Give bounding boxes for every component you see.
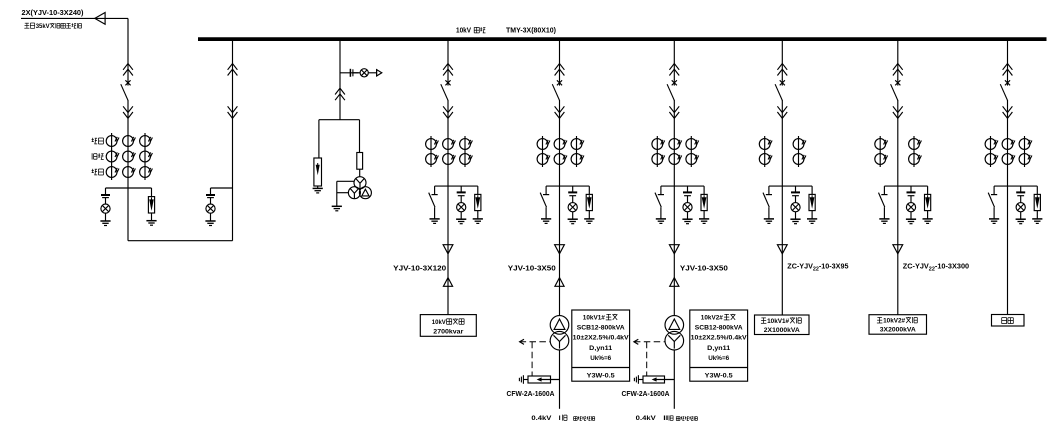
- wire through CTs at x=657: [656, 136, 658, 167]
- svg-text:TMY-3X(80X10): TMY-3X(80X10): [506, 26, 557, 35]
- earthing switch ES of outgoing 2: [879, 186, 888, 219]
- voltage indicator of cap feeder coupling capacitor: [457, 192, 466, 195]
- svg-text:I: I: [559, 415, 561, 422]
- svg-text:0.4kV: 0.4kV: [636, 415, 657, 422]
- load box 10kV capacitor bank: [420, 315, 476, 337]
- ground of ES of T2 feeder: [656, 219, 666, 224]
- svg-text:10kV1#: 10kV1#: [767, 318, 789, 325]
- svg-text:10kV2#: 10kV2#: [701, 315, 723, 322]
- wire of spare to lamp: [1020, 196, 1022, 203]
- wire branch tee of incoming: [106, 187, 152, 189]
- svg-text:10±2X2.5%/0.4kV: 10±2X2.5%/0.4kV: [691, 335, 747, 342]
- wire capacitor feeder column lower: [447, 100, 449, 245]
- CT T1 feeder row1 col1: [537, 139, 550, 150]
- CT outgoing 1 row1 col2: [793, 139, 806, 150]
- voltage display coupling capacitor: [350, 69, 353, 77]
- surge arrester FB of PT panel: [314, 158, 322, 186]
- svg-text:Uk%=6: Uk%=6: [590, 355, 611, 362]
- CT incoming row2 col1: [106, 151, 119, 162]
- voltage indicator of outgoing 2 coupling capacitor: [907, 192, 916, 195]
- earthing switch ES of T1 feeder: [540, 186, 549, 219]
- indicator lamp of riser: [206, 204, 215, 213]
- disconnector upper contacts of T1 feeder QF: [555, 64, 565, 76]
- voltage transformer TV three-winding: [348, 177, 371, 199]
- CT T1 feeder row1 col2: [554, 139, 567, 150]
- wire through CTs at x=990: [990, 136, 992, 167]
- wire arrester drop of incoming: [151, 188, 153, 197]
- wire of outgoing 1 lamp to ground: [795, 212, 797, 219]
- transformer T2 SCB12-800kVA: [665, 316, 684, 350]
- ground of PT neutral: [332, 206, 342, 211]
- indicator lamp of T1 feeder: [568, 203, 577, 212]
- cable termination upper of T1 feeder: [555, 245, 565, 254]
- earthing switch ES of spare: [988, 186, 997, 219]
- wire cable of T2 feeder: [673, 245, 675, 287]
- ground of of incoming: [100, 221, 110, 226]
- circuit breaker of T2 feeder QF: [667, 80, 677, 101]
- disconnector upper contacts of riser disconnector QS2: [228, 64, 238, 76]
- CT spare row1 col2: [1002, 139, 1015, 150]
- disconnector lower contacts of T1 feeder QF: [555, 106, 565, 118]
- svg-text:10±2X2.5%/0.4kV: 10±2X2.5%/0.4kV: [573, 335, 629, 342]
- busway unit CFW-2A-1600A of T1: [528, 376, 560, 383]
- surge arrester F of incoming: [148, 197, 154, 213]
- wire PT arrester to ground: [317, 186, 319, 188]
- wire through CTs at x=465: [464, 136, 466, 167]
- surge arrester F of outgoing 2: [925, 194, 931, 210]
- wire through CTs at x=914: [913, 136, 915, 167]
- CT T1 feeder row2 col2: [554, 154, 567, 165]
- CT T2 feeder row1 col1: [652, 139, 665, 150]
- destination box of outgoing 1: [755, 315, 810, 335]
- CT incoming row1 col3: [140, 136, 153, 147]
- CT T1 feeder row2 col1: [537, 154, 550, 165]
- CT outgoing 1 row2 col2: [793, 154, 806, 165]
- CT T2 feeder row2 col2: [669, 154, 682, 165]
- disconnector upper contacts of spare feeder QF: [1003, 64, 1013, 76]
- wire through CTs at x=112: [111, 133, 113, 180]
- ground of F of T2 feeder: [699, 219, 709, 224]
- wire outgoing 2 column lower: [897, 100, 899, 245]
- wire T2 feeder secondary down: [673, 350, 675, 409]
- svg-text:2X1000kVA: 2X1000kVA: [764, 327, 800, 334]
- wire of incoming drop: [105, 188, 107, 194]
- circuit breaker of outgoing 1 QF: [775, 80, 785, 101]
- voltage indicator of T2 feeder coupling capacitor: [683, 192, 692, 195]
- CT T1 feeder row1 col3: [571, 139, 584, 150]
- svg-text:Y3W-0.5: Y3W-0.5: [587, 372, 615, 379]
- wire T2 feeder to transformer: [673, 286, 675, 315]
- busway unit CFW-2A-1600A of T2: [643, 376, 674, 383]
- ground of ES of outgoing 1: [764, 219, 774, 224]
- surge arrester F of spare: [1034, 194, 1040, 210]
- circuit breaker of T1 feeder QF: [552, 80, 562, 101]
- wire of T2 feeder to lamp: [687, 196, 689, 203]
- svg-text:SCB12-800kVA: SCB12-800kVA: [577, 325, 625, 332]
- wire capacitor feeder column upper: [447, 41, 449, 80]
- wire PT tee: [319, 119, 360, 121]
- wire arrester drop of outgoing 1: [811, 186, 813, 194]
- CT T2 feeder row2 col3: [686, 154, 699, 165]
- surge arrester F of T2 feeder: [701, 194, 707, 210]
- ground of F of outgoing 1: [807, 219, 817, 224]
- CT incoming row2 col3: [140, 151, 153, 162]
- wire riser column: [232, 41, 234, 241]
- CT outgoing 1 row1 col1: [759, 139, 772, 150]
- indicator lamp of incoming: [101, 204, 110, 213]
- wire T1 feeder secondary down: [559, 350, 561, 409]
- wire branch tee of outgoing 2: [884, 185, 927, 187]
- cable arrow incoming: [95, 13, 105, 25]
- wire PT column from busbar: [339, 41, 341, 120]
- wire through CTs at x=798: [798, 136, 800, 167]
- wire branch tee of T1 feeder: [546, 185, 589, 187]
- wire through CTs at x=880: [879, 136, 881, 167]
- dashed link vertical of T2: [646, 342, 648, 376]
- wire lamp to antenna: [368, 72, 376, 74]
- wire F of cap feeder to ground: [477, 211, 479, 219]
- CT T1 feeder row2 col3: [571, 154, 584, 165]
- ground of of T1 feeder: [568, 219, 578, 224]
- CT incoming row3 col1: [106, 167, 119, 178]
- ground of of riser: [205, 221, 215, 226]
- cable termination lower of cap feeder: [443, 278, 452, 287]
- surge arrester F of T1 feeder: [586, 194, 592, 210]
- ground of of outgoing 1: [790, 219, 800, 224]
- wire T2 feeder column mid: [673, 100, 675, 245]
- svg-text:YJV-10-3X120: YJV-10-3X120: [393, 264, 446, 273]
- wire of riser lamp to ground: [210, 213, 212, 221]
- CT T2 feeder row1 col2: [669, 139, 682, 150]
- wire to display lamp: [353, 72, 360, 74]
- label CT row 测量: [92, 138, 94, 142]
- wire branch tee of spare: [994, 185, 1037, 187]
- wire cable of outgoing 1: [781, 245, 783, 315]
- disconnector lower contacts of capacitor feeder QF4: [443, 106, 453, 118]
- CT incoming row3 col3: [140, 167, 153, 178]
- cable termination upper of T2 feeder: [669, 245, 679, 254]
- CT incoming row1 col2: [123, 136, 136, 147]
- indicator lamp of T2 feeder: [683, 203, 692, 212]
- plug contact of CFW-2A T1: [519, 375, 528, 384]
- wire of outgoing 1 drop: [795, 186, 797, 192]
- disconnector lower contacts of riser disconnector QS2: [228, 106, 238, 118]
- wire through CTs at x=542: [542, 136, 544, 167]
- wire branch tee of outgoing 1: [769, 185, 812, 187]
- CT outgoing 2 row1 col2: [909, 139, 922, 150]
- CT outgoing 2 row2 col2: [909, 154, 922, 165]
- CT T2 feeder row1 col3: [686, 139, 699, 150]
- wire cable of cap feeder: [447, 245, 449, 287]
- wire branch tee of T2 feeder: [661, 185, 704, 187]
- wire through CTs at x=431: [430, 136, 432, 167]
- svg-text:35kV: 35kV: [36, 23, 51, 30]
- svg-text:2700kvar: 2700kvar: [433, 329, 463, 336]
- wire PT secondary link: [337, 181, 354, 206]
- wire lamp tee of riser: [211, 187, 233, 189]
- disconnector lower contacts of spare feeder QF: [1003, 106, 1013, 118]
- wire arrester drop of spare: [1036, 186, 1038, 194]
- voltage indicator of T1 feeder coupling capacitor: [568, 192, 577, 195]
- circuit breaker of spare feeder QF: [1000, 80, 1010, 101]
- wire outgoing 1 column lower: [781, 100, 783, 245]
- ground of ES of cap feeder: [430, 219, 440, 224]
- svg-text:YJV-10-3X50: YJV-10-3X50: [680, 264, 728, 273]
- indicator lamp of spare: [1016, 203, 1025, 212]
- wire of cap feeder lamp to ground: [460, 212, 462, 219]
- disconnector upper contacts of outgoing 2 QF: [893, 64, 903, 76]
- cable termination upper of cap feeder: [443, 245, 453, 254]
- svg-text:10kV: 10kV: [432, 319, 446, 326]
- wire of cap feeder drop: [460, 186, 462, 192]
- wire through CTs at x=765: [764, 136, 766, 167]
- svg-text:SCB12-800kVA: SCB12-800kVA: [695, 325, 743, 332]
- wire incoming column upper: [127, 18, 129, 80]
- wire of outgoing 1 to lamp: [795, 196, 797, 203]
- busbar 10kV TMY-3X(80X10): [198, 37, 1047, 41]
- label 备用: [1002, 317, 1007, 319]
- earthing switch ES of cap feeder: [429, 186, 438, 219]
- svg-text:YJV-10-3X50: YJV-10-3X50: [508, 264, 556, 273]
- CT T2 feeder row2 col1: [652, 154, 665, 165]
- CT cap feeder row1 col2: [443, 139, 456, 150]
- wire fuse to PT: [359, 169, 361, 177]
- ground of F of T1 feeder: [584, 219, 594, 224]
- wire T2 feeder column upper: [673, 41, 675, 80]
- label CT row 计量: [92, 169, 94, 173]
- disconnector upper contacts of T2 feeder QF: [669, 64, 679, 76]
- wire F of T1 feeder to ground: [588, 211, 590, 219]
- wire arrester drop of cap feeder: [477, 186, 479, 194]
- ground of of spare: [1016, 219, 1026, 224]
- ground of F of outgoing 2: [923, 219, 933, 224]
- wire incoming column lower: [127, 100, 129, 241]
- wire cap feeder to load box: [447, 286, 449, 314]
- wire F of spare to ground: [1036, 211, 1038, 219]
- voltage indicator of outgoing 1 coupling capacitor: [791, 192, 800, 195]
- wire arrester drop of outgoing 2: [927, 186, 929, 194]
- wire T1 feeder column upper: [559, 41, 561, 80]
- label 至10kV1#分所: [761, 317, 766, 319]
- svg-text:D,yn11: D,yn11: [707, 345, 730, 352]
- label CT row 保护: [91, 153, 93, 159]
- circuit breaker of outgoing 2 QF: [891, 80, 901, 101]
- svg-text:CFW-2A-1600A: CFW-2A-1600A: [622, 389, 670, 398]
- wire cable of T1 feeder: [559, 245, 561, 287]
- wire through CTs at x=576: [576, 136, 578, 167]
- ground of F of spare: [1032, 219, 1042, 224]
- wire of riser to lamp: [210, 198, 212, 204]
- wire F of T2 feeder to ground: [703, 211, 705, 219]
- CT incoming row3 col2: [123, 167, 136, 178]
- cable termination of outgoing 1: [777, 245, 787, 254]
- wire of T2 feeder drop: [687, 186, 689, 192]
- spec box of T1: [572, 310, 630, 381]
- wire arrester drop of T2 feeder: [703, 186, 705, 194]
- CT spare row2 col1: [985, 154, 998, 165]
- wire of riser drop: [210, 188, 212, 194]
- wire arrester drop of T1 feeder: [588, 186, 590, 194]
- CT spare row1 col1: [985, 139, 998, 150]
- svg-text:10kV: 10kV: [456, 28, 471, 35]
- disconnector lower contacts of outgoing 1 QF: [777, 106, 787, 118]
- spec box divider of T1: [572, 367, 630, 369]
- spec box of T2: [690, 310, 748, 381]
- wire of outgoing 2 drop: [910, 186, 912, 192]
- cable termination lower of T2 feeder: [670, 278, 679, 287]
- disconnector upper contacts of incoming QF1: [123, 64, 133, 76]
- disconnector lower contacts of outgoing 2 QF: [893, 106, 903, 118]
- wire outgoing 1 column upper: [781, 41, 783, 80]
- indicator lamp of outgoing 1: [791, 203, 800, 212]
- indicator lamp of outgoing 2: [906, 203, 915, 212]
- disconnector lower contacts of T2 feeder QF: [669, 106, 679, 118]
- transformer T1 SCB12-800kVA: [550, 316, 569, 350]
- indicator lamp of cap feeder: [457, 203, 466, 212]
- svg-text:10kV1#: 10kV1#: [583, 315, 605, 322]
- surge arrester F of cap feeder: [475, 194, 481, 210]
- disconnector of PT panel: [335, 88, 345, 100]
- CT outgoing 2 row1 col1: [875, 139, 888, 150]
- disconnector lower contacts of incoming QF1: [123, 106, 133, 118]
- label 至10kV2#分所: [877, 317, 882, 319]
- wire of incoming to lamp: [105, 198, 107, 204]
- wire through CTs at x=691: [690, 136, 692, 167]
- fuse FU of PT: [357, 153, 363, 170]
- ground of F of cap feeder: [473, 219, 483, 224]
- svg-text:2X(YJV-10-3X240): 2X(YJV-10-3X240): [22, 8, 85, 17]
- ground of of outgoing 2: [906, 219, 916, 224]
- wire spare feeder column upper: [1007, 41, 1009, 80]
- ground of ES of spare: [989, 219, 999, 224]
- CT incoming row2 col2: [123, 151, 136, 162]
- wire of spare lamp to ground: [1020, 212, 1022, 219]
- wire of outgoing 2 to lamp: [910, 196, 912, 203]
- wire loop bottom connector: [128, 240, 233, 242]
- wire of T1 feeder to lamp: [572, 196, 574, 203]
- CT spare row2 col2: [1002, 154, 1015, 165]
- disconnector upper contacts of capacitor feeder QF4: [443, 64, 453, 76]
- disconnector upper contacts of outgoing 1 QF: [777, 64, 787, 76]
- CT cap feeder row2 col2: [443, 154, 456, 165]
- svg-text:0.4kV: 0.4kV: [531, 415, 552, 422]
- dashed link arrow of T2: [634, 339, 665, 344]
- wire of T1 feeder drop: [572, 186, 574, 192]
- wire of T2 feeder lamp to ground: [687, 212, 689, 219]
- destination box spare: [992, 315, 1025, 327]
- svg-text:D,yn11: D,yn11: [589, 345, 612, 352]
- voltage indicator of spare coupling capacitor: [1016, 192, 1025, 195]
- cable termination of outgoing 2: [893, 245, 903, 254]
- CT incoming row1 col1: [106, 136, 119, 147]
- wire F of incoming to ground: [151, 213, 153, 221]
- destination box of outgoing 2: [869, 315, 927, 335]
- surge arrester F of outgoing 1: [809, 194, 815, 210]
- spec box divider of T2: [690, 367, 748, 369]
- ground of PT arrester: [313, 188, 323, 193]
- svg-text:II: II: [663, 415, 668, 422]
- earthing switch ES of T2 feeder: [655, 186, 664, 219]
- ground of F of incoming: [146, 221, 156, 226]
- circuit breaker of incoming QF1: [121, 80, 131, 101]
- CT outgoing 2 row2 col1: [875, 154, 888, 165]
- wire through CTs at x=1024: [1024, 136, 1026, 167]
- wire of incoming lamp to ground: [105, 213, 107, 221]
- wire incoming lead: [21, 17, 128, 19]
- svg-text:3X2000kVA: 3X2000kVA: [880, 327, 916, 334]
- wire F of outgoing 2 to ground: [927, 211, 929, 219]
- circuit breaker of capacitor feeder QF4: [441, 80, 451, 101]
- CT cap feeder row1 col1: [426, 139, 439, 150]
- svg-text:CFW-2A-1600A: CFW-2A-1600A: [507, 389, 555, 398]
- wire of T1 feeder lamp to ground: [572, 212, 574, 219]
- wire of spare drop: [1020, 186, 1022, 192]
- CT cap feeder row1 col3: [460, 139, 473, 150]
- wire through CTs at x=145: [144, 133, 146, 180]
- wire spare feeder column lower: [1007, 100, 1009, 315]
- wire T1 feeder to transformer: [559, 286, 561, 315]
- display antenna contact: [377, 69, 382, 76]
- wire branch tee of cap feeder: [435, 185, 478, 187]
- voltage display lamp: [360, 69, 368, 77]
- wire PT tee left drop: [318, 120, 320, 158]
- wire of cap feeder to lamp: [460, 196, 462, 203]
- svg-text:Y3W-0.5: Y3W-0.5: [705, 372, 733, 379]
- wire outgoing 2 column upper: [897, 41, 899, 80]
- CT cap feeder row2 col3: [460, 154, 473, 165]
- CT cap feeder row2 col1: [426, 154, 439, 165]
- wire of outgoing 2 lamp to ground: [910, 212, 912, 219]
- voltage indicator of incoming coupling capacitor: [101, 195, 110, 198]
- cable termination lower of T1 feeder: [555, 278, 564, 287]
- dashed link vertical of T1: [531, 342, 533, 376]
- wire F of outgoing 1 to ground: [811, 211, 813, 219]
- earthing switch ES of outgoing 1: [763, 186, 772, 219]
- ground of of T2 feeder: [682, 219, 692, 224]
- CT spare row2 col3: [1019, 154, 1032, 165]
- svg-text:Uk%=6: Uk%=6: [708, 355, 729, 362]
- ground of ES of outgoing 2: [879, 219, 889, 224]
- dashed link arrow of T1: [520, 339, 550, 344]
- ground of ES of T1 feeder: [541, 219, 551, 224]
- wire cable of outgoing 2: [897, 245, 899, 315]
- wire live-display tap: [340, 72, 359, 74]
- voltage indicator of riser coupling capacitor: [206, 195, 215, 198]
- svg-text:10kV2#: 10kV2#: [883, 318, 905, 325]
- wire T1 feeder column mid: [559, 100, 561, 245]
- wire PT tee right drop: [359, 120, 361, 153]
- CT spare row1 col3: [1019, 139, 1032, 150]
- ground of of cap feeder: [456, 219, 466, 224]
- plug contact of CFW-2A T2: [634, 375, 643, 384]
- label incoming source 引自35kV变压器台线侧: [25, 22, 29, 24]
- CT outgoing 1 row2 col1: [759, 154, 772, 165]
